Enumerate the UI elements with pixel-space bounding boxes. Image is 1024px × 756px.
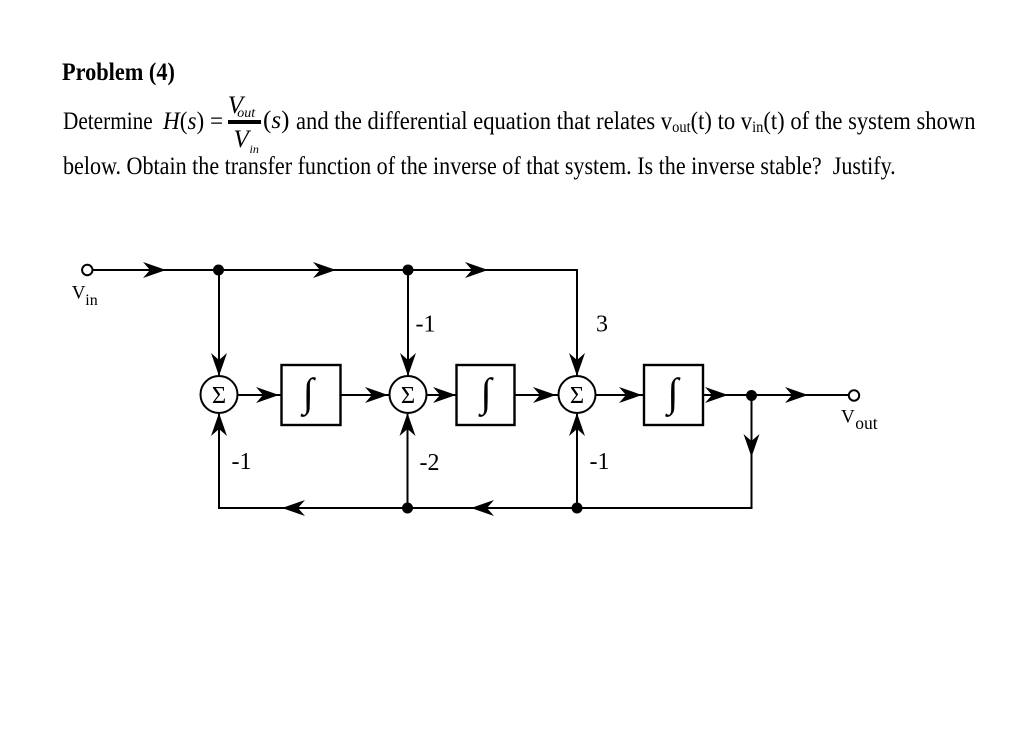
svg-text:in: in [85,292,97,309]
svg-text:-1: -1 [232,449,252,475]
svg-text:-2: -2 [420,450,440,476]
svg-text:V: V [72,283,86,304]
svg-text:3: 3 [596,312,608,338]
svg-text:out: out [855,413,878,433]
svg-text:Σ: Σ [212,382,226,409]
svg-text:V: V [841,406,855,427]
svg-text:-1: -1 [590,449,610,475]
svg-text:Σ: Σ [401,382,415,409]
svg-text:Σ: Σ [570,382,584,409]
svg-text:-1: -1 [416,312,436,338]
